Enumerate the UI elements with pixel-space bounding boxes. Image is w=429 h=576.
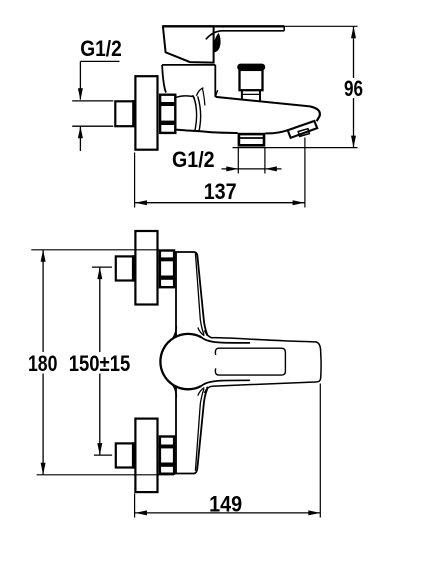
body ring arc 2: [198, 96, 201, 130]
bottom inlet: escutcheon: [135, 419, 157, 493]
spout underside right of outlet: [265, 130, 288, 133]
G1/2 outlet extension lines: [238, 148, 265, 174]
diverter knob cap (dark): [237, 64, 265, 71]
plan lever white fill: [200, 335, 321, 389]
pipe stub (wall connection): [115, 101, 134, 126]
137 dimension line: [135, 202, 305, 204]
137 arrows: [135, 200, 147, 205]
137 right extension line: [304, 138, 306, 208]
leader line for G1/2: [80, 61, 119, 99]
svg-text:149: 149: [209, 492, 242, 517]
handle body: [163, 26, 214, 62]
diverter knob stem: [242, 90, 260, 101]
svg-text:137: 137: [204, 179, 237, 204]
150 dimension line: [99, 267, 101, 455]
fillet body/dome lower left: [169, 381, 177, 397]
connection nut: [159, 95, 176, 133]
180 arrows: [41, 250, 46, 262]
96 dimension line: [353, 26, 355, 147]
body cylinder top edge: [176, 96, 194, 97]
top inlet: stub end wall: [132, 255, 136, 281]
bottom inlet: pipe stub: [116, 443, 134, 467]
lever pivot crescent (dark): [213, 33, 220, 53]
180 bottom extension line: [37, 474, 174, 476]
137 left extension line: [134, 153, 136, 208]
150 arrows: [97, 267, 102, 279]
aerator outer box: [288, 121, 318, 138]
lever bar bottom line: [206, 31, 284, 40]
bottom inlet: stub end wall: [132, 442, 136, 468]
149 arrows: [135, 510, 147, 515]
diverter knob collar line: [242, 93, 260, 95]
plan lever outline: [205, 330, 322, 393]
plan body (vertical): [176, 252, 207, 474]
plan body inner contour top: [195, 253, 204, 335]
plan body inner contour bottom: [195, 389, 204, 471]
svg-text:G1/2: G1/2: [172, 147, 215, 172]
fillet body/lever lower right: [198, 388, 205, 396]
neck curve left: [196, 88, 203, 96]
149 dimension line: [135, 512, 320, 514]
top inlet: nut: [159, 251, 175, 288]
G1/2 dimension line: [222, 168, 282, 170]
spout top edge: [216, 97, 310, 107]
G1/2 arrows: [226, 166, 238, 171]
extension line stub top: [72, 100, 113, 102]
top inlet: pipe stub: [116, 256, 134, 280]
fillet body/lever upper right: [198, 328, 205, 336]
body cylinder bottom edge / spout underside: [176, 130, 238, 133]
bottom extension over escutcheon: [134, 474, 159, 476]
arrow down to pipe stub top: [78, 88, 83, 100]
svg-text:96: 96: [344, 76, 363, 101]
96 extension line from lever: [284, 25, 357, 27]
body ring arc 1: [194, 97, 197, 131]
150 top tick: [92, 266, 112, 268]
dome (cartridge housing) arc: [160, 334, 201, 389]
neck contour a: [193, 95, 197, 106]
150 bottom tick: [94, 454, 112, 456]
top extension over escutcheon: [134, 249, 159, 251]
180 top extension line: [31, 249, 159, 251]
shower outlet box: [239, 134, 264, 145]
svg-text:150±15: 150±15: [69, 351, 131, 376]
arrow up to pipe stub bottom: [78, 126, 83, 138]
escutcheon flange: [135, 76, 157, 150]
diverter knob body: [240, 70, 263, 90]
cartridge cap: [162, 65, 215, 97]
dome white fill: [161, 334, 216, 389]
lever middle contour top: [201, 337, 250, 343]
shower outlet inner line: [238, 137, 266, 139]
lever bar right end: [283, 26, 285, 31]
svg-text:G1/2: G1/2: [80, 36, 122, 61]
180 dimension line: [42, 250, 44, 475]
fillet body/dome upper left: [169, 326, 177, 342]
149 right extension line: [319, 384, 321, 518]
96 arrows: [351, 26, 356, 38]
extension line stub bottom: [72, 125, 113, 127]
96 bottom extension line: [233, 147, 358, 149]
svg-text:180: 180: [28, 351, 58, 376]
lever inner rectangle: [215, 348, 285, 375]
stub thick end wall: [132, 100, 136, 127]
spout tip rounded corner: [310, 106, 320, 121]
bottom inlet: nut: [159, 437, 175, 474]
149 left extension line: [134, 494, 136, 518]
aerator inner box: [298, 129, 309, 137]
top inlet: escutcheon: [135, 231, 157, 305]
lever bar top line: [163, 25, 284, 27]
neck contour b: [202, 88, 205, 105]
neck curve right: [216, 90, 218, 97]
lever middle contour bottom: [201, 380, 250, 386]
leader tail below arrow: [79, 126, 81, 151]
